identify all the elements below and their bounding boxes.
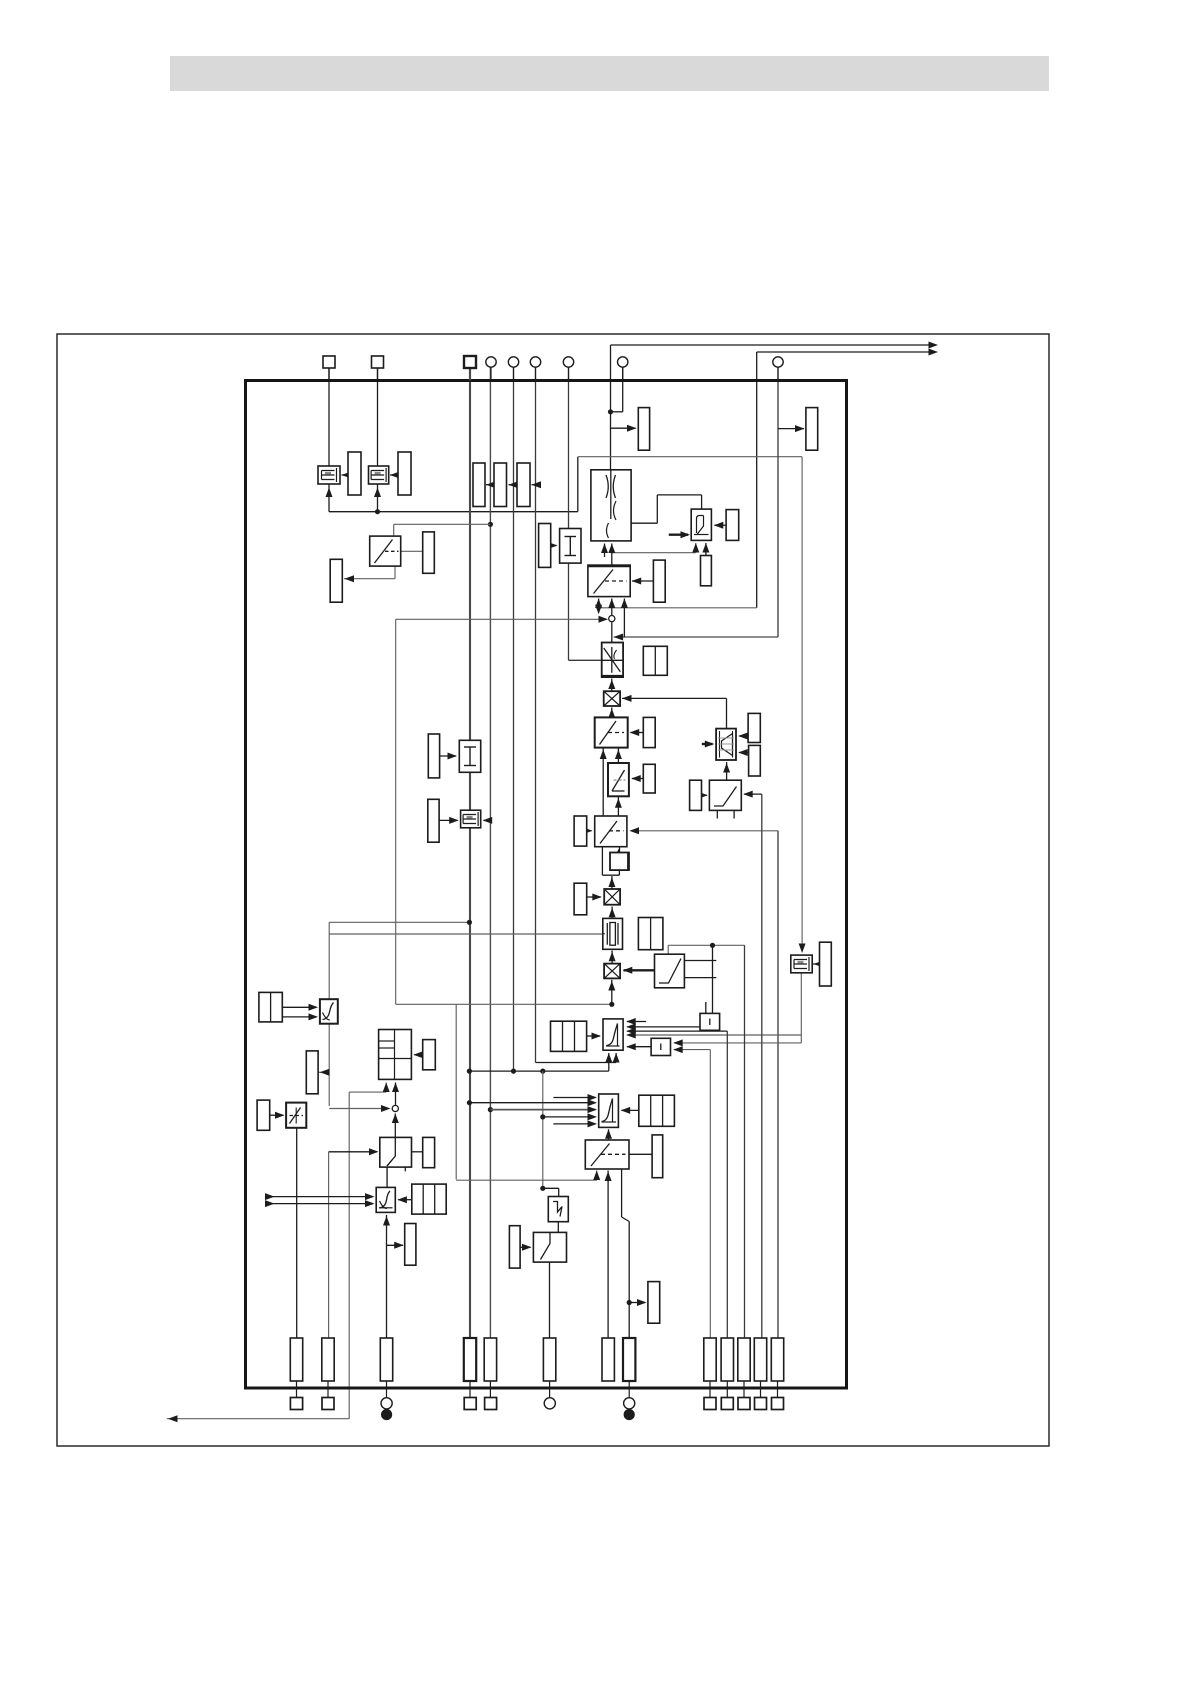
pad square BG4	[755, 1398, 767, 1410]
block phase det	[599, 1094, 619, 1127]
pin box P9	[704, 1338, 716, 1381]
wire pll in2	[626, 1023, 700, 1030]
top pin circle T8	[618, 357, 628, 381]
wire phase in5	[553, 1120, 597, 1127]
block mixer M2	[604, 889, 620, 905]
bus b744	[744, 945, 746, 1338]
wire mixer3 out	[608, 980, 615, 1005]
label rect AGCb	[405, 1224, 416, 1266]
pin stub x629	[628, 1381, 630, 1398]
block takeover 3	[461, 810, 481, 828]
wire node to divider	[611, 622, 613, 642]
wire sb2 stub1	[705, 1002, 707, 1013]
bus pin2	[377, 368, 379, 466]
wire switch1 rect link	[632, 578, 654, 585]
wire switch4 to mixer3	[623, 967, 685, 974]
block sync sep	[548, 1197, 568, 1222]
wire switch1 first input	[595, 599, 602, 615]
pin stub x328	[327, 1381, 329, 1398]
block sb1	[610, 853, 629, 871]
top pin circle T9	[773, 357, 783, 381]
label rect LIMb	[701, 556, 712, 586]
wire limiter rect in	[714, 522, 726, 529]
pin stub x490	[489, 1381, 491, 1398]
block limiter small	[691, 509, 711, 540]
block switch S3	[595, 816, 627, 847]
wire box1 label arrow	[342, 472, 352, 479]
pad square B1	[290, 1398, 302, 1410]
pin box P5	[484, 1338, 496, 1381]
label rect S5r	[423, 1137, 435, 1167]
pin circle B6	[544, 1398, 555, 1409]
label rect AFRr	[638, 408, 649, 451]
wire eeprom branch	[483, 817, 493, 824]
top pin circle T6	[530, 357, 540, 381]
label rect S0r	[423, 532, 435, 573]
pin box P4	[464, 1338, 476, 1381]
wire agc in line2	[265, 1200, 375, 1207]
label rect IB2l	[428, 734, 439, 778]
pad square BG3	[738, 1398, 750, 1410]
pad square B5	[485, 1398, 497, 1410]
wire switch3 rect in	[583, 827, 593, 834]
label rect S3l	[574, 816, 587, 846]
block switch S0	[370, 536, 401, 566]
pad square BG1	[704, 1398, 716, 1410]
wire switch0 out left	[344, 566, 395, 582]
wire switch6 rect link	[629, 1153, 652, 1155]
block pll	[603, 1019, 623, 1050]
block takeover 2	[369, 466, 389, 484]
wire limiter2 in	[270, 1112, 285, 1119]
pin box P7	[602, 1338, 614, 1381]
wire sync hang	[542, 1071, 544, 1188]
pin stub x549	[549, 1381, 551, 1398]
pin circle B3	[381, 1398, 392, 1409]
wire agc pin feed	[383, 1215, 390, 1338]
label rect OUT2	[648, 1282, 660, 1324]
label rect PLLl	[551, 1021, 587, 1051]
label rect dbl left	[259, 992, 282, 1022]
bus pin7	[569, 367, 602, 660]
pin box P13	[771, 1338, 783, 1381]
bus b727	[726, 1031, 728, 1338]
block limiter2	[286, 1103, 306, 1128]
wire pll fb1	[536, 1053, 620, 1063]
block switch S7	[533, 1232, 566, 1262]
label rect S6r	[652, 1135, 663, 1178]
label rect EP2l	[428, 799, 439, 842]
block sb3	[651, 1038, 670, 1055]
label rect S1r	[653, 560, 665, 602]
wire switch3 right input	[630, 827, 779, 1338]
block takeover 1	[318, 466, 340, 484]
block mixer M3	[604, 964, 620, 979]
pin stub x470	[469, 1381, 471, 1398]
wire crystal feed	[329, 920, 603, 934]
wire phase in4	[540, 1113, 597, 1120]
bus pin9	[777, 367, 779, 637]
label rect XTr	[638, 918, 663, 950]
wire mixer2 rect in	[587, 894, 602, 901]
label rect EPr	[820, 942, 832, 986]
bus b761	[743, 791, 762, 1338]
label rect bus1	[473, 463, 485, 507]
bus pin6	[535, 367, 537, 1063]
wire phase rect in	[621, 1107, 639, 1114]
label rect L2l	[257, 1100, 270, 1130]
label rect TRr1	[748, 713, 760, 742]
top pin square T2	[372, 356, 384, 381]
pin box P2	[322, 1338, 334, 1381]
label rect OPr	[806, 408, 818, 451]
wire pin5 L-drop	[611, 367, 623, 412]
pin circle B7	[624, 1398, 635, 1409]
block switch S1	[588, 565, 630, 597]
label rect bus2	[494, 463, 507, 507]
block switch S5	[380, 1137, 412, 1167]
wire register input	[167, 1083, 390, 1423]
pad square B4	[464, 1398, 476, 1410]
bus pin1	[328, 368, 330, 466]
wire switch0 out right	[401, 550, 423, 552]
block agc	[376, 1187, 395, 1212]
top pin circle T7	[563, 357, 573, 381]
wire demod loop	[396, 616, 615, 1007]
pin stub x744	[743, 1381, 745, 1398]
wire switch1 third input	[614, 599, 778, 641]
block eeprom	[791, 955, 812, 973]
bus pin3 bold	[469, 368, 471, 1338]
block switch S6	[585, 1140, 629, 1169]
wire control bus	[326, 457, 806, 953]
wire eeprom right in	[813, 961, 824, 968]
wire mixer1 rf	[622, 695, 727, 729]
wire switch1 mid input	[608, 599, 615, 616]
wire eeprom right rect branch	[778, 425, 805, 432]
wire phase in1	[553, 1094, 597, 1101]
wire crystal out	[609, 951, 616, 964]
pin box P8	[623, 1338, 635, 1381]
wire vif chain left	[329, 934, 390, 1112]
label rect RMPr	[643, 764, 655, 793]
wire pll in3	[626, 1028, 727, 1035]
block switch S4	[655, 954, 685, 988]
wire trap rect in1	[738, 733, 748, 740]
label rect S7l	[509, 1226, 520, 1268]
label rect DIVr	[643, 646, 667, 675]
wire ramp in	[615, 796, 622, 816]
header bar	[170, 56, 1049, 91]
bus b710	[709, 1050, 711, 1338]
wire afc branch	[456, 1004, 600, 1180]
wire switch3 out	[615, 847, 622, 859]
block switchT	[709, 780, 741, 810]
block sb2	[700, 1013, 720, 1030]
wire switchT ticks	[717, 810, 734, 818]
label rect PLL3r	[423, 1040, 436, 1070]
wire node feed right	[599, 607, 757, 609]
wire agc in line1	[265, 1193, 375, 1200]
pin box P10	[721, 1338, 733, 1381]
wire sb3 in2	[673, 1046, 710, 1053]
wire pll3 rect in	[413, 1051, 423, 1058]
wire pll in1	[626, 1018, 646, 1025]
block agc detector I2	[459, 740, 480, 772]
wire ident branch	[319, 1069, 330, 1076]
block trapezoid	[716, 729, 736, 760]
wire phase in2	[467, 1099, 597, 1106]
pin stub x710	[709, 1381, 711, 1398]
label rect S0l	[330, 559, 342, 602]
pin stub x777	[777, 1381, 779, 1398]
label rect STl	[690, 780, 702, 810]
wire switch7 in	[520, 1244, 531, 1251]
wire filter in arrows	[601, 544, 615, 566]
wire switch2 in	[600, 748, 622, 816]
label rect S2r	[643, 717, 655, 747]
pin box P12	[754, 1338, 766, 1381]
label rect R1	[348, 452, 361, 495]
wire switch6 pin feed	[605, 1171, 612, 1339]
wire divider input	[608, 679, 615, 692]
wire switch4 feed	[668, 943, 744, 955]
wire switch5 input	[329, 1148, 379, 1338]
wire ramp rect in	[631, 775, 643, 782]
wire afr rect branch	[611, 425, 637, 432]
wire node2 up	[392, 1083, 399, 1105]
wire switch6 out jog	[622, 1169, 647, 1338]
wire limiter loop	[617, 495, 702, 527]
node junction 1	[609, 616, 615, 622]
wire phase bottom in	[605, 1129, 612, 1140]
label rect IDr	[306, 1051, 318, 1094]
node junction 2	[392, 1105, 398, 1111]
pin stub x727	[726, 1381, 728, 1398]
wire limiter2 out	[296, 1128, 298, 1338]
wire trapezoid in	[723, 762, 730, 780]
wire busrect arrow2	[509, 481, 519, 488]
block register	[379, 1030, 412, 1080]
wire switch2 rect in	[630, 729, 644, 736]
block IF filter	[591, 470, 631, 541]
label rect PDr	[639, 1095, 675, 1126]
wire top output 1	[608, 342, 938, 470]
wire top output 2	[757, 349, 938, 608]
wire dbl to sbox b	[282, 1013, 318, 1020]
wire agc rect in	[397, 1196, 411, 1203]
wire switch5 tick	[404, 1162, 406, 1171]
wire eeprom2 in	[439, 817, 459, 824]
pin box P11	[738, 1338, 750, 1381]
pin stub x386	[386, 1381, 388, 1398]
block video sw	[320, 999, 338, 1024]
outer frame	[57, 334, 1049, 1446]
pin box P1	[290, 1338, 302, 1381]
wire sb1 to mixer2	[602, 847, 619, 889]
wire dbl to sbox a	[282, 1004, 318, 1011]
pin box P6	[543, 1338, 555, 1381]
wire switch5 rect link	[412, 1151, 423, 1153]
wire mixer2 out	[609, 907, 616, 919]
block mixer M1	[604, 691, 620, 706]
wire agc out branch	[387, 1242, 404, 1249]
label rect LIMr	[726, 510, 739, 541]
wire switchT in	[698, 792, 708, 799]
pad square BG5	[772, 1398, 784, 1410]
top pin square T3 bold	[464, 356, 476, 381]
block divider	[602, 643, 623, 678]
wire vco link	[386, 1167, 388, 1187]
wire sync feed	[540, 1186, 559, 1197]
wire mixer1 in	[608, 708, 615, 719]
block ref I	[560, 529, 581, 564]
wire sb3 in1	[673, 1039, 801, 1046]
wire busrect arrow1	[486, 481, 496, 488]
top pin square T1	[323, 356, 335, 381]
block crystal osc	[603, 918, 623, 949]
wire sb2 stub2	[712, 945, 714, 1013]
wire switch0 feed	[394, 522, 493, 536]
wire box2 label arrow	[390, 472, 400, 479]
wire phase in3	[488, 1106, 597, 1113]
block acquisition I	[539, 524, 551, 568]
wire pll rect in	[587, 1033, 601, 1040]
label rect bus3	[517, 463, 530, 507]
wire limiter sub	[611, 543, 710, 556]
top pin circle T4	[486, 357, 496, 381]
wire pll in4	[626, 973, 801, 1043]
wire switch4 ticks	[684, 961, 716, 978]
wire trap thick in	[702, 741, 715, 748]
wire limiter thick in	[669, 531, 690, 538]
wire busrect arrow3	[532, 481, 542, 488]
pad square B2	[322, 1398, 334, 1410]
wire sync to switch7	[557, 1222, 559, 1233]
bus pin5	[513, 367, 515, 1071]
pin stub x296	[296, 1381, 298, 1398]
label rect TRr2	[749, 745, 761, 776]
wire pll fb2	[467, 1053, 613, 1074]
pin circle B7f	[624, 1409, 635, 1420]
wire trap rect in2	[738, 749, 748, 756]
wire node2 down	[392, 1114, 399, 1138]
wire switch7 out	[549, 1262, 551, 1338]
top pin circle T5	[508, 357, 518, 381]
pin circle B3f	[381, 1409, 392, 1420]
block switch S2	[595, 717, 628, 747]
wire ibox2 in	[440, 753, 457, 760]
pin stub x760	[760, 1381, 762, 1398]
bus pin4	[489, 367, 491, 1338]
inner IC frame	[246, 381, 847, 1389]
pin box P3	[380, 1338, 392, 1381]
label rect AGCr	[412, 1184, 446, 1214]
pad square BG2	[721, 1398, 733, 1410]
block ramp	[608, 763, 629, 796]
label rect M2l	[574, 883, 587, 915]
label rect R2	[398, 452, 411, 495]
wire ibox in	[548, 542, 558, 549]
wire pll in5	[626, 1043, 651, 1050]
